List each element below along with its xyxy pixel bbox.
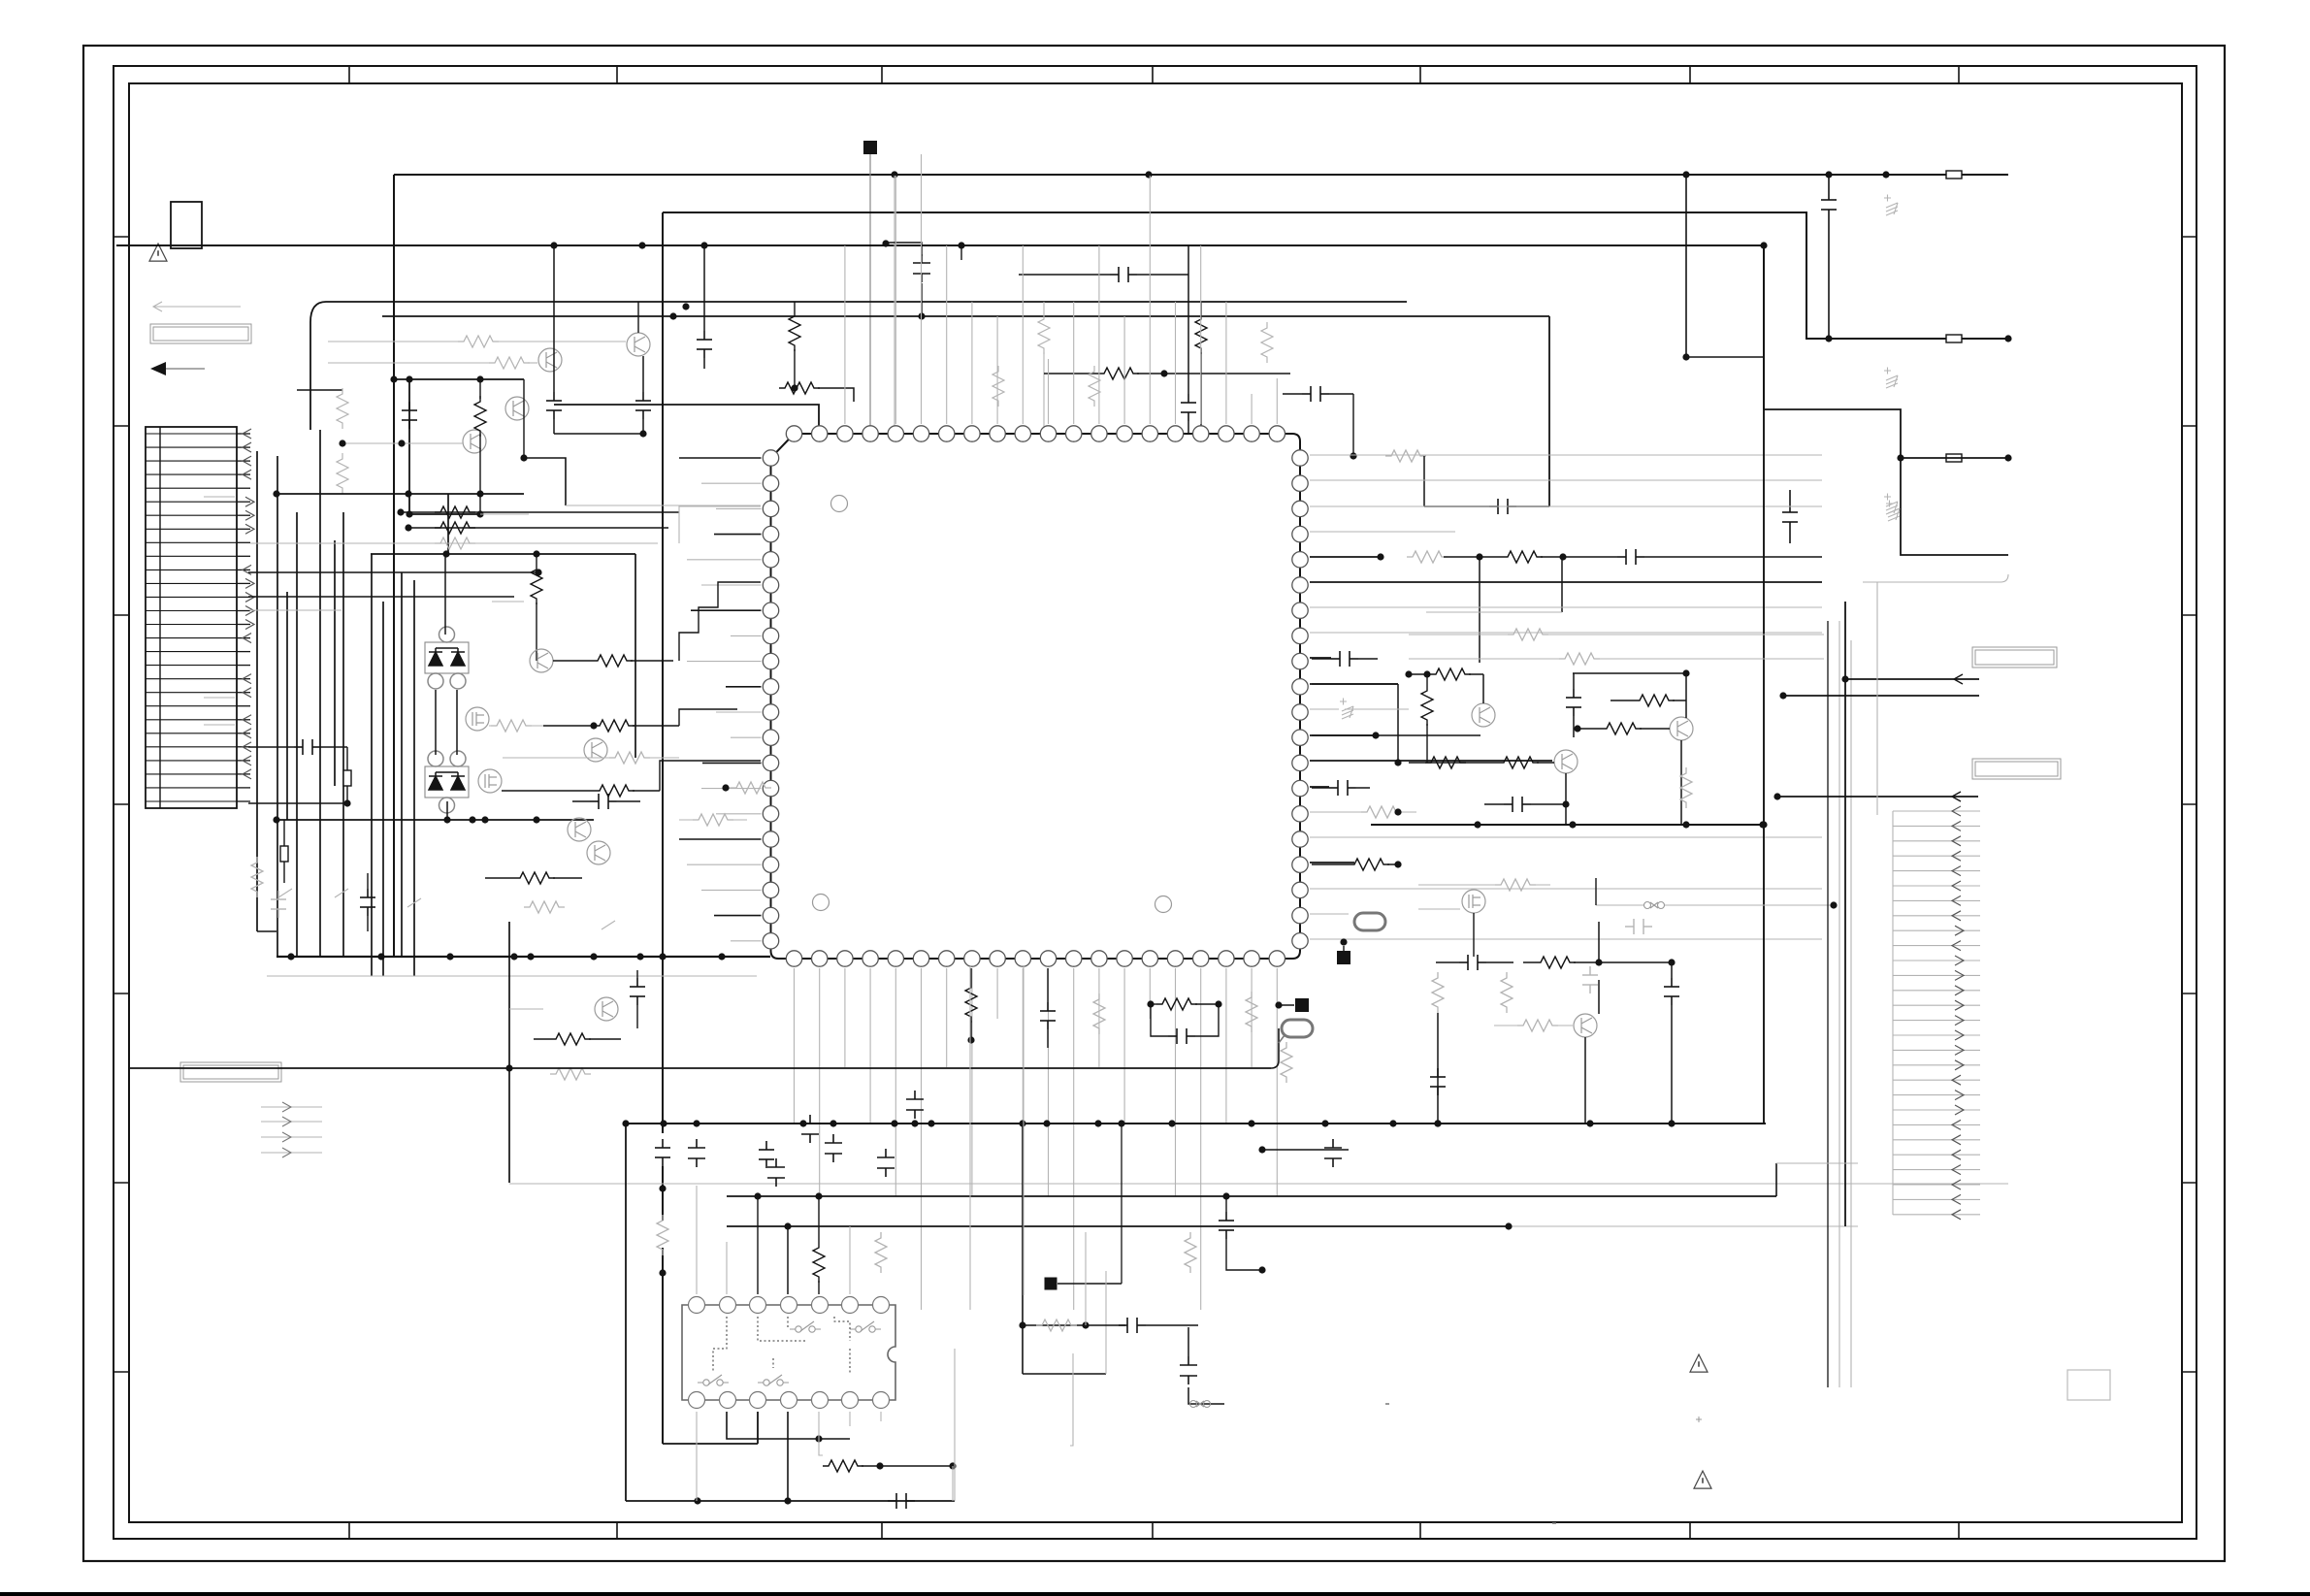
wire bus y326 — [382, 315, 1549, 317]
wire — [346, 786, 348, 803]
wire — [321, 746, 347, 748]
wire — [1789, 531, 1791, 543]
capacitor capacitor C18 — [630, 978, 645, 1005]
wire bus y850 — [1371, 824, 1763, 826]
wire — [1043, 302, 1045, 434]
wire — [1469, 673, 1483, 675]
wire staircase — [660, 761, 761, 791]
wire — [1893, 1139, 1980, 1141]
wire — [731, 635, 762, 636]
wire — [1537, 762, 1554, 764]
wire — [248, 802, 347, 804]
connector CN1 pin 5 stub — [237, 487, 250, 489]
wire — [1225, 968, 1227, 1124]
junction at (1817,850) — [1759, 821, 1766, 828]
wire — [1424, 505, 1489, 507]
jumper jumper JP4 — [343, 770, 351, 786]
wire — [1482, 674, 1484, 703]
connector CN1 pin 18 stub — [237, 665, 250, 667]
transistor transistor Q13 — [1554, 750, 1578, 773]
wire — [543, 725, 594, 727]
resistor resistor R7 — [789, 310, 800, 351]
wire — [1188, 421, 1189, 434]
junction at (859,1158) — [830, 1120, 836, 1126]
wire — [663, 1443, 758, 1445]
wire vertical — [319, 430, 321, 957]
wire — [701, 482, 762, 484]
wire — [1121, 1124, 1122, 1284]
wire — [1225, 302, 1227, 424]
wire — [971, 302, 973, 424]
wire — [1850, 640, 1852, 1387]
connector CN1 pin 1 stub — [237, 433, 250, 435]
wire IC right pin — [1310, 786, 1329, 788]
wire — [553, 245, 555, 392]
arrowhead — [243, 769, 251, 779]
label box — [1972, 759, 2061, 779]
wire — [1251, 968, 1253, 1067]
wire — [1310, 836, 1822, 838]
wire IC right pin — [1310, 734, 1376, 736]
wire — [1423, 456, 1425, 506]
wire vertical — [277, 456, 278, 957]
analog switch S1 — [790, 1321, 821, 1332]
transistor transistor Q15 — [1462, 890, 1485, 913]
wire — [589, 1038, 621, 1040]
wire vertical — [256, 451, 258, 931]
resistor resistor R55 — [1495, 879, 1536, 891]
wire — [1105, 1271, 1107, 1374]
transistor transistor Q12 — [1472, 703, 1495, 727]
wire — [1358, 658, 1378, 660]
junction at (553,571) — [533, 550, 539, 557]
wire — [1523, 961, 1535, 963]
wire — [409, 379, 480, 514]
connector CN1 pin 6 stub — [237, 501, 250, 503]
junction at (358,828) — [343, 799, 350, 806]
resistor resistor R19 — [435, 522, 475, 534]
wire — [1764, 409, 1901, 458]
junction at (1523,850) — [1474, 821, 1480, 828]
resistor resistor R47 — [1421, 685, 1433, 726]
connector pad pad P3 — [1337, 951, 1350, 964]
wire — [1098, 968, 1100, 1067]
resistor resistor R28 — [731, 782, 771, 794]
wire — [1310, 479, 1822, 481]
wire — [283, 862, 285, 883]
wire — [1149, 176, 1151, 424]
junction at (612,748) — [590, 722, 597, 729]
wire — [696, 1186, 698, 1294]
arrowhead — [1952, 792, 1961, 801]
resistor resistor R38 — [1246, 992, 1257, 1032]
capacitor capacitor C13 — [1617, 549, 1644, 565]
wire — [1486, 961, 1513, 963]
wire — [642, 356, 644, 392]
wire — [701, 584, 762, 586]
arrowhead — [1952, 1180, 1961, 1189]
wire VCC top bus — [394, 174, 2008, 176]
resistor resistor R21 — [531, 564, 542, 604]
junction at (1441,891) — [1394, 861, 1401, 867]
junction at (285,509) — [273, 490, 279, 497]
wire — [1599, 961, 1672, 963]
capacitor capacitor C37 — [1582, 966, 1598, 993]
junction at (1885,349) — [1825, 335, 1832, 342]
wire — [1175, 302, 1177, 424]
wire — [346, 747, 348, 770]
wire IC right pin — [1310, 556, 1378, 558]
wire — [1188, 1387, 1224, 1404]
capacitor capacitor C12 — [1489, 499, 1516, 514]
wire — [703, 358, 705, 369]
warning symbol — [1694, 1471, 1711, 1488]
connector CN1 pin 3 stub — [237, 460, 250, 462]
junction at (812,1264) — [784, 1222, 791, 1229]
wire — [723, 787, 731, 789]
wire — [1893, 870, 1980, 872]
junction at (525,1101) — [505, 1064, 512, 1071]
wire — [1283, 393, 1302, 395]
arrowhead — [1952, 866, 1961, 876]
symbol polarized cap C1 — [1886, 501, 1900, 522]
wire — [401, 511, 679, 513]
wire — [1531, 803, 1566, 805]
junction at (422,391) — [406, 375, 412, 382]
wire — [1137, 373, 1290, 375]
wire — [497, 341, 626, 342]
transistor transistor Q4 — [463, 430, 486, 453]
resistor resistor R49 — [1601, 723, 1642, 734]
junction at (1119,1366) — [1082, 1321, 1089, 1328]
wire — [1022, 968, 1024, 1124]
resistor resistor R11 — [1098, 368, 1139, 379]
junction at (495,509) — [476, 490, 483, 497]
wire — [1548, 316, 1550, 506]
resistor resistor R40 — [813, 1242, 825, 1283]
wire bundle — [1827, 621, 1829, 1387]
splice — [1190, 1401, 1211, 1408]
arrowhead — [245, 497, 254, 506]
wire — [261, 1121, 322, 1123]
wire — [969, 966, 971, 1310]
wire — [371, 553, 635, 555]
wire bus y219 — [663, 212, 2008, 339]
arrowhead — [1955, 926, 1964, 935]
wire — [509, 1008, 543, 1010]
wire — [1312, 787, 1329, 789]
junction at (1738,694) — [1682, 669, 1689, 676]
capacitor capacitor C30 — [801, 1115, 819, 1143]
capacitor capacitor C9 — [1110, 267, 1137, 282]
arrowhead — [1952, 911, 1961, 921]
flow arrow — [150, 362, 166, 375]
wire — [895, 176, 896, 424]
wire — [1048, 359, 1050, 424]
arrowhead — [1955, 1045, 1964, 1055]
junction at (487,845) — [469, 816, 475, 823]
wire — [819, 1412, 823, 1455]
wire — [946, 968, 948, 1067]
wire — [553, 419, 555, 434]
junction at (907,1511) — [876, 1462, 883, 1469]
transistor transistor Q1 — [627, 333, 650, 356]
wire — [1195, 1004, 1219, 1036]
wire — [679, 506, 761, 543]
wire — [703, 245, 705, 331]
wire — [249, 609, 342, 611]
wire — [536, 554, 537, 564]
wire vertical x645 — [625, 1124, 627, 1501]
junction at (812,1547) — [784, 1497, 791, 1504]
wire — [553, 877, 582, 879]
wire — [1893, 1034, 1980, 1036]
wire — [1775, 1163, 1777, 1196]
arrowhead — [1952, 1210, 1961, 1220]
capacitor capacitor C19 — [888, 1493, 915, 1509]
junction at (683,1225) — [659, 1185, 666, 1191]
wire — [970, 1021, 972, 1040]
wire bus y1366 — [1023, 1324, 1125, 1326]
junction at (819,400) — [791, 384, 797, 391]
wire — [1828, 218, 1830, 339]
wire — [408, 527, 668, 529]
junction at (913,251) — [882, 240, 889, 246]
wire — [1345, 708, 1409, 710]
wire — [204, 496, 235, 498]
arrowhead — [1952, 1194, 1961, 1204]
wire — [1893, 915, 1980, 917]
wire — [954, 1349, 956, 1501]
capacitor capacitor C22 — [906, 1091, 924, 1119]
analog switch S3 — [698, 1375, 729, 1385]
junction at (1902,700) — [1841, 675, 1848, 682]
wire — [1023, 966, 1025, 1295]
wire — [1541, 556, 1617, 558]
connector CN1 body — [146, 427, 237, 808]
label box — [150, 324, 251, 343]
wire — [1776, 1162, 1858, 1164]
junction at (1890,933) — [1830, 901, 1837, 908]
capacitor capacitor C20 — [688, 1139, 705, 1167]
tiny mark2 — [1552, 1522, 1556, 1524]
wire — [261, 1106, 322, 1108]
wire — [1262, 1149, 1349, 1151]
junction at (2070,349) — [2004, 335, 2011, 342]
capacitor capacitor C1 — [655, 1139, 670, 1166]
wire vertical — [382, 602, 384, 976]
IC U1 index mark — [813, 895, 830, 911]
tiny mark3 — [1385, 1403, 1389, 1405]
wire IC left pin — [714, 534, 762, 536]
wire IC right pin — [1310, 581, 1822, 583]
wire — [731, 940, 762, 942]
resistor resistor R33 — [550, 1068, 591, 1080]
wire — [716, 813, 762, 815]
wire — [1387, 863, 1398, 865]
wire — [1200, 245, 1202, 424]
connector CN1 pin 8 stub — [237, 528, 250, 530]
junction at (844,1483) — [815, 1435, 822, 1442]
junction at (1395,470) — [1350, 452, 1356, 459]
arrowhead — [282, 1132, 291, 1142]
connector CN1 pin 21 stub — [237, 705, 250, 707]
wire — [278, 889, 615, 929]
arrowhead — [1955, 1016, 1964, 1026]
wire — [1329, 393, 1353, 395]
wire vertical — [401, 572, 403, 957]
capacitor capacitor C27 — [1119, 1318, 1146, 1333]
junction at (571,253) — [550, 242, 557, 248]
wire — [1057, 1283, 1122, 1285]
junction at (547,986) — [527, 953, 534, 960]
junction at (684,1158) — [660, 1120, 667, 1126]
wire — [166, 368, 205, 370]
junction at (495,530) — [476, 510, 483, 517]
connector CN1 pin 10 stub — [237, 555, 250, 557]
wire — [553, 660, 592, 662]
tiny mark — [1696, 1417, 1702, 1422]
junction at (1423,574) — [1377, 553, 1383, 560]
wire — [1671, 962, 1673, 978]
wire — [1310, 531, 1455, 533]
resistor resistor R35 — [965, 982, 977, 1023]
junction at (718,1158) — [693, 1120, 700, 1126]
wire — [726, 1242, 728, 1294]
wire arrow net 2 — [1783, 695, 1979, 697]
wire — [1893, 945, 1980, 947]
wire — [1893, 899, 1980, 901]
wire — [572, 800, 590, 802]
resistor resistor R6 — [337, 453, 348, 494]
IC U1 index mark 2 — [1155, 896, 1172, 913]
wire — [1225, 1196, 1227, 1212]
wire IC right pin — [1310, 683, 1398, 685]
arrowhead — [1955, 970, 1964, 980]
wire — [1893, 1049, 1980, 1051]
junction at (1441,837) — [1394, 808, 1401, 815]
wire arrow net — [1845, 678, 1979, 680]
junction at (1832,821) — [1773, 793, 1780, 799]
wire — [727, 1412, 850, 1439]
junction at (555,590) — [535, 569, 541, 575]
wire — [1893, 1079, 1980, 1081]
arrowhead — [243, 456, 251, 466]
wire vertical — [447, 494, 449, 554]
wire — [971, 968, 973, 1196]
arrowhead — [1955, 1000, 1964, 1010]
warning symbol — [149, 244, 167, 261]
capacitor capacitor C4 — [402, 402, 417, 429]
transistor transistor Q14 — [1670, 717, 1693, 740]
junction at (1471,695) — [1423, 670, 1430, 677]
wire — [1426, 611, 1562, 613]
junction at (1318,1036) — [1275, 1001, 1282, 1008]
wire — [485, 877, 514, 879]
junction at (1366,1158) — [1321, 1120, 1328, 1126]
junction at (540,472) — [520, 454, 527, 461]
wire — [844, 245, 846, 424]
capacitor capacitor C28 — [1180, 1356, 1197, 1384]
wire — [328, 362, 489, 364]
wire — [1893, 855, 1980, 857]
junction at (1200,385) — [1160, 370, 1167, 376]
junction at (1525,574) — [1476, 553, 1482, 560]
wire — [952, 1466, 954, 1501]
arrowhead — [243, 634, 251, 643]
resistor resistor R48 — [1634, 695, 1675, 706]
resistor resistor R51 — [1425, 757, 1466, 768]
arrowhead — [282, 1117, 291, 1126]
label box — [180, 1062, 281, 1082]
arrowhead — [1955, 1030, 1964, 1040]
wire — [849, 1412, 851, 1426]
resistor resistor R18 — [435, 506, 475, 518]
resistor resistor R24 — [594, 720, 634, 732]
resistor resistor R31 — [524, 901, 565, 913]
junction at (828,1158) — [799, 1120, 806, 1126]
junction at (660,986) — [636, 953, 643, 960]
wire — [1473, 913, 1475, 957]
wire — [1356, 787, 1370, 789]
junction at (1611,574) — [1559, 553, 1566, 560]
wire — [862, 1465, 953, 1467]
wire — [1893, 1184, 1980, 1186]
resistor resistor R15 — [1385, 450, 1426, 462]
junction at (1738,368) — [1682, 353, 1689, 360]
resistor resistor R53 — [1361, 806, 1402, 818]
connector CN1 pin 24 stub — [237, 746, 250, 748]
resistor resistor R36 — [1093, 993, 1105, 1034]
wire IC left pin — [702, 762, 762, 764]
junction at (663,447) — [639, 430, 646, 437]
junction at (1184,180) — [1145, 171, 1152, 178]
junction at (1301,1309) — [1258, 1266, 1265, 1273]
wire — [637, 302, 639, 333]
junction at (1482,1158) — [1434, 1120, 1441, 1126]
wire — [528, 362, 537, 364]
wire — [1019, 274, 1110, 276]
junction at (943,1158) — [911, 1120, 918, 1126]
wire — [1418, 884, 1550, 886]
wire — [1893, 929, 1980, 931]
capacitor capacitor C14 — [294, 739, 321, 755]
connector CN1 pin 22 stub — [237, 719, 250, 721]
capacitor capacitor C32 — [1331, 651, 1358, 667]
wire — [248, 571, 538, 573]
capacitor capacitor C36 — [1459, 955, 1486, 970]
wire — [1048, 968, 1050, 1196]
jumper jumper JP1 — [1946, 171, 1962, 179]
wire — [261, 1152, 322, 1154]
junction at (922,180) — [891, 171, 897, 178]
junction at (960,1158) — [927, 1120, 934, 1126]
wire — [1892, 811, 1894, 1215]
resistor resistor R30 — [514, 872, 555, 884]
wire — [1022, 245, 1024, 424]
resistor resistor R22 — [592, 655, 633, 667]
splice2 — [1644, 902, 1665, 909]
junction at (991,253) — [958, 242, 964, 248]
wire — [1312, 863, 1349, 865]
wire — [1901, 457, 2008, 459]
resistor resistor R45 — [1508, 629, 1548, 640]
analog switch S2 — [850, 1321, 881, 1332]
capacitor capacitor C40 — [1625, 919, 1652, 934]
resistor resistor R29 — [251, 857, 263, 897]
wire — [1444, 556, 1502, 558]
junction at (844,1233) — [815, 1192, 822, 1199]
